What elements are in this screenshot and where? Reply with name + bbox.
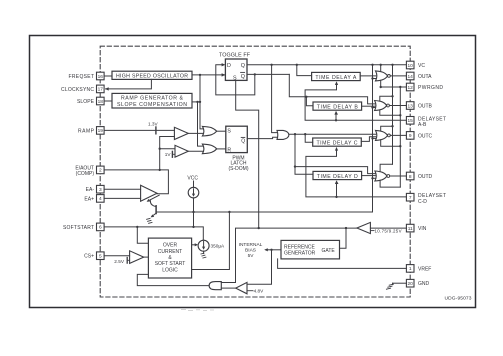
svg-text:CURRENT: CURRENT	[158, 249, 182, 255]
svg-text:OUTA: OUTA	[418, 74, 432, 80]
wire NOR B strap to VC rail	[380, 96, 393, 101]
svg-text:5V: 5V	[248, 253, 255, 259]
output NOR gate G-B (OUTB)	[375, 101, 387, 111]
svg-text:(COMP): (COMP)	[76, 171, 95, 177]
internal bias node label	[239, 242, 263, 259]
1V offset battery	[165, 151, 175, 157]
wire clock tap down to OR1	[200, 75, 203, 129]
svg-text:GENERATOR: GENERATOR	[284, 250, 316, 256]
svg-text:RAMP GENERATOR &: RAMP GENERATOR &	[121, 96, 184, 102]
wire NOR C strap to VC rail	[381, 126, 393, 131]
wire Qbar down-jog to TIME DELAY B input	[289, 74, 375, 104]
output NOR gate G-C (OUTC)	[376, 130, 388, 140]
PWM latch U-PWML "PWM LATCH (S-DOM)"	[226, 126, 249, 172]
output NOR gate G-D (OUTD)	[375, 171, 387, 181]
svg-text:14: 14	[408, 74, 414, 80]
wire NOR C output to OUTC pin9	[390, 134, 406, 136]
wire VCC source down to softstart node	[193, 198, 195, 227]
svg-text:TOGGLE FF: TOGGLE FF	[219, 52, 251, 58]
wire TIME DELAY C output to NOR C	[361, 137, 376, 142]
pin 11 VIN	[406, 224, 414, 232]
output NOR gate G-A (OUTA)	[376, 71, 388, 81]
ground symbol at GND pin	[386, 283, 393, 289]
svg-text:Q: Q	[241, 63, 245, 69]
svg-text:OUTC: OUTC	[418, 133, 433, 139]
wire PWM latch output to phase gate	[247, 137, 277, 138]
wire GND pin20 to ground	[393, 282, 407, 284]
svg-text:&: &	[168, 255, 172, 261]
svg-text:INTERNAL: INTERNAL	[239, 242, 263, 248]
wire branch into TIME DELAY B	[306, 97, 313, 106]
wire NOR D strap to VC rail	[380, 164, 392, 171]
OR gate G-OR1 (set)	[202, 126, 216, 136]
svg-text:6: 6	[99, 225, 102, 231]
svg-text:TIME DELAY C: TIME DELAY C	[317, 140, 358, 146]
wire E/A output riser to comparator 1 inverting input	[160, 137, 175, 170]
wire PWRGND pin12 line	[381, 86, 407, 88]
svg-text:S: S	[227, 128, 231, 134]
pin 9 OUTC	[406, 132, 414, 140]
oscillator block U-OSC "HIGH SPEED OSCILLATOR"	[112, 71, 192, 79]
current sense comparator U-CS	[130, 251, 144, 264]
svg-text:12: 12	[408, 85, 414, 91]
wire TIME DELAY A output to NOR A	[360, 75, 376, 77]
time delay block C	[313, 138, 362, 146]
svg-text:16: 16	[98, 74, 104, 80]
pin 20 GND	[406, 279, 414, 287]
VCC current source symbol	[187, 176, 198, 198]
wire DELAYSET A-B pin15 run	[305, 84, 406, 120]
svg-text:SLOPE: SLOPE	[77, 99, 95, 105]
svg-text:4: 4	[99, 196, 102, 202]
undervoltage lockout comparator U-UVLO (points left)	[357, 222, 371, 233]
svg-text:TIME DELAY A: TIME DELAY A	[315, 75, 357, 81]
svg-text:VCC: VCC	[187, 176, 198, 182]
pin 10 VC	[406, 61, 414, 69]
wire UVLO output run	[221, 228, 357, 282]
wire Q tap down to TIME DELAY A	[297, 65, 312, 76]
svg-text:VIN: VIN	[418, 226, 427, 232]
pin 7 DELAYSET C-D	[406, 193, 414, 201]
pin 8 OUTD	[406, 172, 414, 180]
svg-text:1.3V: 1.3V	[148, 121, 159, 126]
4.8V label	[247, 289, 264, 294]
wire branch into TIME DELAY C	[305, 134, 313, 142]
wire RAMP pin19 to comparator 1	[104, 129, 174, 131]
wire toggle FF Q output bus to pin 10 VC	[247, 64, 406, 66]
svg-text:2.5V: 2.5V	[114, 259, 125, 264]
wire EA+ pin4 to error amp	[104, 197, 141, 199]
wire VREF from reference generator to pin1	[278, 259, 407, 269]
wire OR2 output to PWM latch R	[217, 148, 226, 150]
svg-text:OUTB: OUTB	[418, 103, 433, 109]
ground hatch under 350uA source	[201, 252, 204, 255]
border frame	[30, 36, 476, 308]
wire reference output to internal bias	[266, 249, 281, 251]
svg-text:SOFTSTART: SOFTSTART	[63, 225, 94, 231]
wire toggle FF Qbar output	[247, 73, 289, 75]
wire TIME DELAY D output to NOR D	[362, 175, 376, 177]
wire SOFTSTART pin6 run	[104, 227, 203, 240]
wire toggle FF S input from fault line	[236, 80, 259, 228]
svg-text:BIAS: BIAS	[245, 248, 256, 254]
wire NOR D strap to PWRGND rail	[380, 180, 400, 187]
wire ramp generator output stub	[192, 101, 200, 103]
svg-text:4.8V: 4.8V	[254, 289, 265, 294]
faint scan artifact	[181, 310, 214, 311]
pin 6 SOFTSTART	[97, 223, 105, 231]
PWM comparator U-CMP1	[174, 127, 188, 139]
svg-text:350µA: 350µA	[211, 244, 226, 249]
svg-text:3: 3	[99, 187, 102, 193]
wire disable stub into NOR A	[373, 78, 376, 80]
pin 4 EA+	[97, 195, 105, 203]
pin 16 FREQSET	[97, 72, 105, 80]
svg-text:10.75/9.25V: 10.75/9.25V	[375, 228, 402, 233]
svg-text:UDG-95073: UDG-95073	[445, 296, 472, 302]
wire CS comparator output to logic	[144, 256, 149, 258]
2.5V threshold label and battery	[114, 258, 129, 264]
svg-text:(S-DOM): (S-DOM)	[229, 166, 249, 172]
svg-text:Q: Q	[241, 74, 245, 80]
pin 19 RAMP	[97, 127, 105, 135]
svg-text:11: 11	[408, 226, 413, 232]
svg-text:LOGIC: LOGIC	[162, 267, 178, 273]
pin 13 OUTB	[406, 102, 414, 110]
svg-text:18: 18	[98, 99, 104, 105]
wire fault line horizontal run	[156, 211, 372, 213]
wire phase signal down to TIME DELAY D	[295, 134, 313, 174]
10.75/9.25V threshold label	[371, 228, 402, 233]
svg-text:SLOPE COMPENSATION: SLOPE COMPENSATION	[117, 102, 187, 108]
svg-text:FREQSET: FREQSET	[69, 74, 95, 80]
PWM comparator U-CMP2	[175, 145, 188, 157]
svg-text:C-D: C-D	[418, 199, 427, 205]
wire OR1 output to PWM latch S	[217, 130, 226, 132]
svg-text:5: 5	[99, 254, 102, 260]
wire over-current to 350uA source	[192, 244, 197, 246]
svg-text:15: 15	[408, 118, 414, 124]
svg-text:R: R	[227, 148, 231, 154]
wire Q tap down to phase gate	[272, 65, 278, 133]
wire NOR C strap to PWRGND rail	[381, 140, 401, 146]
AND gate G-OK (points left)	[209, 282, 221, 290]
wire direct branch to NOR D	[295, 167, 375, 174]
pin 3 EA-	[97, 185, 105, 193]
OR gate G-OR2 (reset)	[202, 144, 216, 154]
pin 14 OUTA	[406, 72, 414, 80]
wire PWRGND rail vertical	[399, 87, 401, 187]
wire FREQSET pin16 to oscillator	[104, 75, 112, 77]
wire branch to comparator 2 input	[160, 148, 175, 150]
wire VIN pin11 to UVLO comparator	[370, 227, 406, 229]
svg-text:HIGH SPEED OSCILLATOR: HIGH SPEED OSCILLATOR	[116, 74, 188, 80]
right-side pins	[406, 61, 414, 287]
svg-text:Q: Q	[241, 139, 245, 145]
wire toggle FF D feedback loop	[216, 65, 255, 95]
wire phase gate output to NOR C	[289, 133, 376, 135]
pin 18 SLOPE	[97, 97, 105, 105]
wire clock tap down to OR2	[198, 102, 204, 146]
1.3V ramp offset battery	[148, 121, 159, 133]
svg-text:RAMP: RAMP	[78, 128, 95, 134]
wire NOR A emitter strap to PWRGND	[380, 80, 382, 87]
svg-text:EA+: EA+	[84, 196, 94, 202]
svg-text:CS+: CS+	[84, 254, 94, 260]
wire DELAYSET branch up to TIME DELAY B	[335, 114, 337, 120]
ramp generator block "RAMP GENERATOR & SLOPE COMPENSATION"	[112, 93, 192, 108]
wire NOR A collector strap to VC	[380, 65, 382, 72]
soft-start clamp transistor Q1	[147, 195, 160, 223]
wire disable stub into NOR C	[373, 137, 376, 139]
pin name labels right	[418, 63, 446, 287]
over current / soft start logic block	[148, 238, 191, 278]
svg-text:TIME DELAY B: TIME DELAY B	[317, 104, 359, 110]
wire branch into over-current logic	[137, 227, 148, 243]
pin 2 E/AOUT	[97, 166, 105, 174]
wire oscillator clock output to toggle FF clock	[192, 74, 225, 76]
wire ok-AND output to soft start logic	[137, 274, 209, 285]
svg-text:CLOCKSYNC: CLOCKSYNC	[61, 87, 94, 93]
wire E/AOUT pin2 to error amp output node	[104, 170, 168, 194]
pin 12 PWRGND	[406, 83, 414, 91]
pin 5 CS+	[97, 252, 105, 260]
wire DELAYSET branch up to TIME DELAY D	[336, 183, 338, 197]
left-side pins	[97, 72, 105, 259]
wire VC rail vertical	[392, 65, 394, 164]
wire UVLO branch to reference gate	[340, 228, 347, 248]
dashed IC boundary	[100, 46, 410, 297]
wire comparator 1 output to OR1	[188, 132, 203, 134]
svg-text:GND: GND	[418, 281, 430, 287]
wire 4.8V comparator output to AND	[221, 287, 235, 289]
svg-text:GATE: GATE	[322, 248, 336, 254]
wire EA- pin3 to error amp	[104, 188, 141, 190]
svg-text:2: 2	[99, 168, 102, 174]
wire NOR A output to OUTA pin14	[390, 75, 406, 77]
wire NOR B strap to PWRGND rail	[380, 110, 401, 115]
svg-text:SOFT START: SOFT START	[155, 261, 186, 267]
svg-text:D: D	[227, 63, 231, 69]
svg-text:OUTD: OUTD	[418, 174, 433, 180]
4.8V comparator U-REFOK (points left)	[236, 282, 247, 293]
svg-text:OVER: OVER	[163, 243, 178, 249]
svg-text:20: 20	[408, 281, 414, 287]
svg-text:1V: 1V	[165, 152, 172, 157]
wire NOR D output to OUTD pin8	[390, 175, 407, 177]
svg-text:10: 10	[408, 63, 414, 69]
wire fault/disable vertical spine	[372, 65, 374, 212]
svg-text:8: 8	[409, 174, 412, 180]
svg-text:1: 1	[409, 266, 412, 272]
svg-text:TIME DELAY D: TIME DELAY D	[317, 174, 358, 180]
wire oscillator to CLOCKSYNC pin17	[106, 79, 152, 89]
svg-text:EA-: EA-	[86, 187, 95, 193]
time delay block D	[313, 171, 362, 179]
pin 17 CLOCKSYNC	[97, 85, 105, 93]
wire DELAYSET C-D pin7 run	[306, 150, 407, 197]
350uA current source symbol	[198, 240, 225, 258]
toggle flip-flop U-TFF	[219, 52, 251, 81]
wire 5V tap down to 4.8V comparator	[247, 250, 272, 284]
svg-text:S: S	[233, 76, 237, 82]
wire comparator 2 output to OR2	[188, 150, 203, 152]
svg-text:19: 19	[98, 128, 104, 134]
time delay block B	[313, 102, 362, 110]
svg-text:17: 17	[98, 87, 104, 93]
time delay block A	[312, 72, 361, 80]
wire disable stub into NOR B	[373, 107, 375, 109]
wire CS+ pin5 to comparator	[104, 255, 130, 257]
reference generator block with GATE input	[281, 240, 340, 259]
pin name labels left	[61, 74, 95, 260]
phase shift gate G-PH	[277, 130, 289, 139]
ground hatch under Q1 emitter	[147, 217, 150, 220]
svg-text:VC: VC	[418, 63, 425, 69]
pin 15 DELAYSET A-B	[406, 117, 414, 125]
wire disable stub into NOR D	[373, 177, 376, 179]
pin 1 VREF	[406, 265, 414, 273]
svg-text:7: 7	[409, 195, 412, 201]
svg-text:PWRGND: PWRGND	[418, 85, 443, 91]
svg-text:VREF: VREF	[418, 266, 431, 272]
wire SLOPE pin18 to ramp generator	[104, 100, 112, 102]
svg-text:13: 13	[408, 103, 414, 109]
error amplifier U-EA	[141, 185, 157, 201]
wire TIME DELAY B output to NOR B	[362, 105, 375, 107]
wire NOR B output to OUTB pin13	[389, 105, 406, 107]
wire over-current output riser to fault line	[192, 212, 230, 270]
svg-text:A-B: A-B	[418, 122, 427, 128]
svg-text:9: 9	[409, 133, 412, 139]
